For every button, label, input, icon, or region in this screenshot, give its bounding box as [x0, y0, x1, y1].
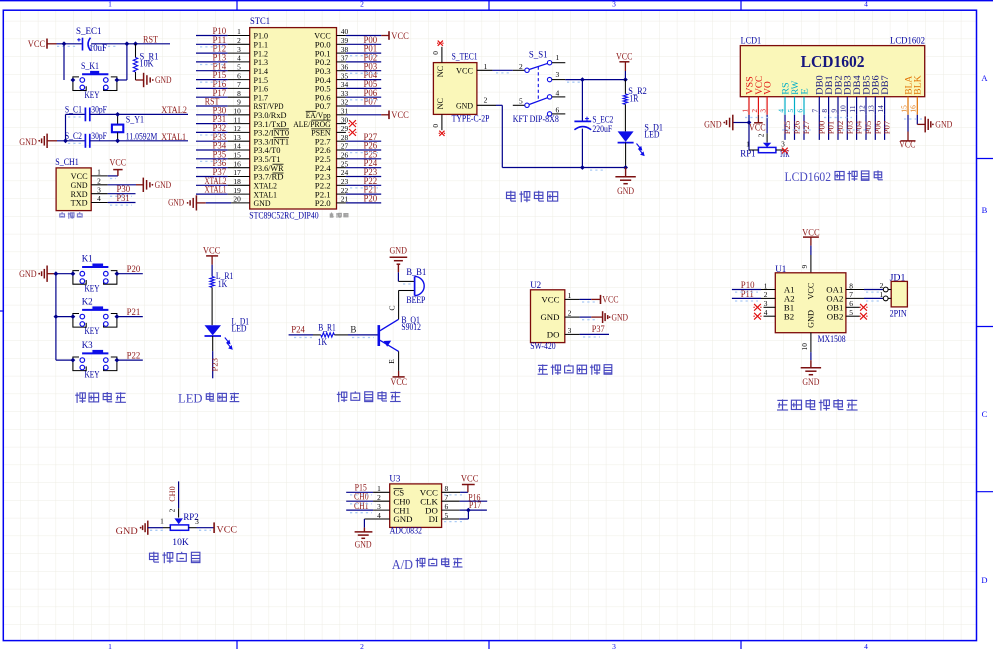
- driver U1 pin7 wire: [846, 297, 883, 299]
- svg-text:13: 13: [867, 105, 876, 113]
- svg-text:3: 3: [377, 502, 381, 511]
- svg-text:GND: GND: [617, 186, 634, 196]
- svg-text:LCD1602: LCD1602: [785, 169, 832, 184]
- svg-text:S_K1: S_K1: [81, 61, 99, 71]
- power port VCC (U3): [461, 475, 479, 493]
- svg-text:NC: NC: [436, 65, 445, 77]
- driver U1 body: [775, 264, 846, 344]
- lcd pin1 wire to gnd rail: [733, 115, 751, 150]
- wire key bus: [55, 274, 57, 360]
- wire crystal gnd row: [57, 140, 86, 142]
- svg-text:P07: P07: [882, 120, 892, 134]
- compile marks lcd: [745, 118, 922, 131]
- node junction led bottom: [623, 165, 628, 170]
- svg-text:B_B1: B_B1: [406, 267, 426, 277]
- wire U1 pin9: [800, 246, 811, 273]
- svg-text:4: 4: [556, 88, 560, 97]
- svg-text:4: 4: [864, 642, 868, 649]
- svg-text:VCC: VCC: [807, 282, 816, 299]
- svg-text:1: 1: [568, 291, 572, 300]
- mcu STC1 body: [249, 16, 336, 220]
- wire switch to vcc column: [565, 79, 625, 81]
- compile marks U2: [582, 302, 600, 337]
- compile marks U1: [735, 292, 882, 301]
- compile marks reset area: [57, 46, 132, 205]
- buzzer B_B1: [399, 267, 427, 305]
- net label XTAL1: [161, 132, 186, 142]
- net label P37 (U2): [592, 324, 605, 334]
- svg-text:3: 3: [97, 185, 101, 194]
- svg-text:C: C: [387, 305, 396, 310]
- svg-text:DO: DO: [547, 330, 560, 340]
- svg-text:STC89C52RC_DIP40: STC89C52RC_DIP40: [249, 210, 319, 220]
- svg-text:S_CH1: S_CH1: [55, 157, 79, 167]
- svg-text:2: 2: [568, 309, 572, 318]
- connector S_TEC1 pin1 wire: [477, 62, 513, 71]
- push button S_K1: [73, 61, 117, 100]
- svg-text:BLK: BLK: [913, 75, 923, 95]
- net label CH0 (rotated): [167, 486, 177, 502]
- svg-text:19: 19: [233, 186, 241, 195]
- svg-text:6: 6: [795, 109, 804, 113]
- svg-text:1K: 1K: [318, 337, 328, 347]
- driver U1 pins OB1/OB2 stubs: [846, 307, 860, 316]
- svg-text:VCC: VCC: [217, 526, 238, 536]
- node junctions crystal: [115, 112, 120, 143]
- svg-text:13: 13: [233, 133, 241, 142]
- svg-text:7: 7: [237, 80, 241, 89]
- svg-text:KEY: KEY: [85, 90, 100, 100]
- svg-text:GND: GND: [155, 180, 172, 190]
- net label CH1 (U3): [354, 501, 369, 511]
- mcu right pin wires: [337, 36, 382, 203]
- power port VCC (RP2): [197, 522, 238, 535]
- label adc title: [392, 557, 463, 572]
- svg-text:5: 5: [786, 109, 795, 113]
- svg-text:8: 8: [849, 281, 853, 290]
- label key circuit title: [75, 392, 126, 403]
- net label P24: [291, 324, 305, 334]
- svg-text:VCC: VCC: [391, 110, 409, 120]
- svg-text:GND: GND: [155, 75, 172, 85]
- svg-text:4: 4: [97, 194, 101, 203]
- wire net P16 (U3): [442, 500, 488, 502]
- svg-text:34: 34: [341, 80, 349, 89]
- svg-text:2: 2: [360, 0, 364, 8]
- svg-text:RW: RW: [790, 80, 800, 94]
- svg-text:P17: P17: [469, 500, 482, 510]
- svg-text:GND: GND: [355, 540, 372, 550]
- svg-text:P11: P11: [741, 289, 754, 299]
- wire net P37 (U2): [580, 333, 609, 335]
- svg-text:D: D: [981, 575, 987, 585]
- svg-text:27: 27: [341, 142, 349, 151]
- svg-text:18: 18: [233, 177, 241, 186]
- node junction crystal left: [63, 138, 68, 143]
- svg-text:VO: VO: [763, 81, 773, 95]
- svg-text:32: 32: [341, 98, 349, 107]
- svg-text:VCC: VCC: [749, 122, 766, 132]
- svg-text:CH0: CH0: [167, 486, 177, 502]
- svg-text:2: 2: [360, 642, 364, 649]
- svg-text:4: 4: [764, 308, 768, 317]
- svg-text:3: 3: [237, 45, 241, 54]
- svg-text:220uF: 220uF: [592, 124, 612, 134]
- svg-text:15: 15: [899, 105, 908, 113]
- net label B: [350, 324, 356, 334]
- svg-text:25: 25: [341, 159, 349, 168]
- net label P31 (download): [117, 193, 130, 203]
- connector S_TEC1 top pin: [431, 41, 444, 63]
- svg-text:LCD1602: LCD1602: [890, 35, 925, 45]
- mcu left pin wires: [196, 36, 250, 195]
- no-connect mark RP1 pin3: [781, 148, 788, 154]
- ground GND (buzzer): [389, 246, 407, 282]
- lcd pin15 wire to vcc: [899, 115, 915, 150]
- power port VCC (download): [108, 157, 126, 176]
- svg-text:2PIN: 2PIN: [890, 308, 908, 318]
- svg-text:GND: GND: [612, 312, 629, 322]
- wire net P10 (U1): [732, 289, 775, 291]
- svg-text:P24: P24: [291, 324, 305, 334]
- svg-text:B: B: [350, 324, 356, 334]
- svg-text:S_C2: S_C2: [65, 131, 82, 141]
- connector S_CH1 body: [55, 157, 91, 211]
- led L_D1: [205, 317, 250, 349]
- connector S_TEC1 pin2 wire: [477, 96, 502, 168]
- wire key right branch: [117, 44, 127, 80]
- connector JD1: [880, 273, 908, 319]
- power port VCC (U1): [802, 227, 820, 245]
- svg-text:5: 5: [849, 308, 853, 317]
- svg-text:20: 20: [233, 195, 241, 204]
- svg-text:VCC: VCC: [203, 246, 221, 256]
- net label P17 (U3): [469, 500, 482, 510]
- svg-text:VCC: VCC: [602, 295, 618, 305]
- net label XTAL2: [161, 105, 187, 115]
- svg-text:21: 21: [341, 195, 349, 204]
- svg-text:12: 12: [233, 124, 241, 133]
- svg-text:GND: GND: [254, 198, 271, 208]
- net label P30 (download): [117, 184, 131, 194]
- mcu right net labels: [364, 35, 378, 204]
- svg-text:S_EC1: S_EC1: [76, 26, 102, 36]
- wire net P30 (download): [108, 193, 136, 195]
- connector S_CH1 pins: [71, 168, 108, 208]
- svg-text:30pF: 30pF: [91, 131, 107, 141]
- adc U3 pin names/numbers: [377, 484, 448, 524]
- push button K3: [56, 340, 143, 380]
- svg-text:LCD1602: LCD1602: [801, 52, 865, 71]
- svg-text:GND: GND: [168, 198, 184, 208]
- svg-text:S_C1: S_C1: [65, 105, 82, 115]
- svg-text:P20: P20: [364, 194, 378, 204]
- svg-text:4: 4: [237, 54, 241, 63]
- svg-text:29: 29: [341, 124, 349, 133]
- svg-text:GND: GND: [19, 137, 37, 147]
- wire led to net P23: [212, 336, 214, 378]
- module U2 body: [530, 280, 565, 351]
- svg-text:1: 1: [108, 0, 112, 8]
- svg-text:VCC: VCC: [391, 31, 409, 41]
- svg-text:DB7: DB7: [880, 75, 890, 95]
- svg-text:KEY: KEY: [85, 283, 100, 293]
- svg-text:S_TEC1: S_TEC1: [452, 52, 478, 62]
- svg-text:KFT DIP-8X8: KFT DIP-8X8: [513, 114, 559, 124]
- svg-text:VCC: VCC: [391, 377, 408, 387]
- svg-text:17: 17: [233, 168, 241, 177]
- svg-text:STC1: STC1: [250, 16, 270, 26]
- wire U3 pin5 loop: [442, 510, 469, 519]
- net label P10 (U1): [741, 280, 755, 290]
- svg-text:9: 9: [829, 109, 838, 113]
- svg-text:2: 2: [519, 62, 523, 71]
- svg-text:ADC0832: ADC0832: [390, 526, 422, 536]
- svg-text:C: C: [982, 409, 988, 419]
- module U2 pins: [540, 291, 579, 340]
- svg-text:1: 1: [880, 290, 884, 299]
- adc U3 body: [389, 474, 441, 536]
- svg-text:37: 37: [341, 54, 349, 63]
- resistor S_R1: [133, 44, 158, 80]
- svg-text:35: 35: [341, 71, 349, 80]
- svg-text:2: 2: [484, 96, 488, 105]
- wire net P11 (U1): [732, 297, 775, 299]
- ground GND (crystal): [19, 134, 57, 148]
- svg-text:GND: GND: [704, 120, 722, 130]
- svg-text:8: 8: [445, 484, 449, 493]
- ground GND (U3): [355, 532, 373, 550]
- svg-text:VCC: VCC: [461, 475, 479, 485]
- svg-text:B: B: [982, 205, 988, 215]
- svg-text:6: 6: [445, 502, 449, 511]
- power port VCC (mcu pin31): [381, 110, 409, 120]
- svg-text:38: 38: [341, 45, 349, 54]
- compile marks buzzer: [294, 284, 412, 338]
- svg-text:E: E: [799, 88, 809, 95]
- svg-text:2: 2: [377, 493, 381, 502]
- svg-text:2: 2: [757, 133, 766, 137]
- svg-text:DI: DI: [429, 514, 438, 524]
- svg-text:GND: GND: [393, 514, 412, 524]
- svg-text:4: 4: [776, 109, 785, 113]
- svg-text:2: 2: [97, 176, 101, 185]
- label power circuit title: [507, 191, 558, 203]
- svg-text:23: 23: [341, 177, 349, 186]
- svg-text:2: 2: [168, 508, 177, 512]
- push button K1: [56, 254, 143, 294]
- svg-text:VCC: VCC: [110, 157, 127, 167]
- svg-text:VCC: VCC: [28, 39, 46, 49]
- svg-text:LCD1: LCD1: [741, 35, 762, 45]
- compile marks RP2: [150, 529, 211, 531]
- label buzzer circuit title: [337, 391, 401, 402]
- driver U1 inner rotated labels: [807, 282, 816, 328]
- svg-text:10uF: 10uF: [89, 43, 107, 53]
- wire CH0 to RP2: [168, 481, 179, 517]
- svg-text:10: 10: [233, 107, 241, 116]
- svg-text:MX1508: MX1508: [818, 334, 846, 344]
- potentiometer RP2: [160, 512, 199, 548]
- wire P24 to resistor: [289, 334, 313, 336]
- svg-text:4: 4: [377, 511, 381, 520]
- wire net P31 (download): [108, 202, 136, 204]
- svg-text:NC: NC: [436, 97, 445, 109]
- svg-text:39: 39: [341, 36, 349, 45]
- power port VCC (reset net): [28, 39, 57, 50]
- svg-text:OB2: OB2: [827, 311, 844, 321]
- svg-text:12: 12: [857, 105, 866, 113]
- svg-text:3: 3: [195, 517, 199, 526]
- ground GND (U2): [580, 311, 629, 323]
- node junction vcc column top: [623, 77, 628, 82]
- svg-text:2: 2: [237, 36, 241, 45]
- svg-text:6: 6: [237, 71, 241, 80]
- lcd LCD1 body: [740, 35, 925, 96]
- svg-text:CH1: CH1: [354, 501, 369, 511]
- lcd pin names, numbers and stubs: [740, 75, 922, 115]
- svg-text:33: 33: [341, 89, 349, 98]
- svg-text:40: 40: [341, 27, 349, 36]
- connector S_TEC1 inner labels: [436, 65, 473, 110]
- svg-text:4: 4: [864, 0, 868, 8]
- svg-text:9: 9: [237, 98, 241, 107]
- switch S_S1: [513, 50, 566, 125]
- svg-text:9: 9: [800, 265, 809, 269]
- connector S_TEC1 bottom pin: [431, 114, 445, 135]
- svg-text:3: 3: [612, 642, 616, 649]
- svg-text:1: 1: [740, 109, 749, 113]
- svg-text:K3: K3: [82, 340, 93, 350]
- svg-text:P27: P27: [801, 120, 811, 134]
- svg-text:3: 3: [556, 70, 560, 79]
- svg-text:1: 1: [484, 62, 488, 71]
- svg-text:1: 1: [746, 140, 750, 149]
- svg-text:K1: K1: [82, 254, 93, 264]
- no-connect marks U1 B1/B2: [753, 304, 761, 320]
- capacitor S_EC1: [76, 26, 107, 53]
- wire U1 pin10: [800, 333, 811, 368]
- svg-text:B2: B2: [784, 311, 794, 321]
- wire net CH1 (U3): [346, 509, 390, 511]
- svg-text:15: 15: [233, 151, 241, 160]
- svg-text:1: 1: [108, 642, 112, 649]
- svg-text:LED: LED: [644, 130, 659, 140]
- ground GND (reset): [136, 73, 172, 87]
- svg-text:U3: U3: [389, 474, 400, 484]
- svg-text:P26: P26: [792, 120, 802, 134]
- svg-text:1K: 1K: [218, 279, 228, 289]
- svg-text:8: 8: [820, 109, 829, 113]
- svg-text:1: 1: [764, 281, 768, 290]
- svg-text:VCC: VCC: [802, 227, 820, 237]
- svg-text:24: 24: [341, 168, 349, 177]
- svg-text:14: 14: [233, 142, 241, 151]
- lcd data wires and rotated net labels: [782, 115, 892, 140]
- push button K2: [56, 296, 143, 336]
- mcu pin names and numbers: [233, 27, 348, 208]
- svg-text:1: 1: [97, 168, 101, 177]
- svg-text:11: 11: [848, 105, 857, 112]
- ground GND (supply): [615, 168, 635, 196]
- resistor B_R1: [313, 323, 348, 348]
- led S_D1: [618, 123, 663, 168]
- node junction at key/RST wire: [125, 41, 130, 46]
- svg-text:S_S1: S_S1: [529, 50, 548, 60]
- wire net P17 (U3): [442, 509, 487, 511]
- capacitor S_C1: [65, 105, 107, 122]
- connector S_TEC1 body: [433, 52, 489, 124]
- svg-text:5: 5: [519, 97, 523, 106]
- svg-text:P07: P07: [364, 97, 378, 107]
- wire U3 pin8 to vcc: [442, 491, 468, 493]
- svg-text:1: 1: [377, 484, 381, 493]
- svg-text:30pF: 30pF: [91, 105, 107, 115]
- driver U1 pin8 wire: [846, 289, 883, 291]
- svg-text:0: 0: [431, 124, 440, 128]
- net label P11 (U1): [741, 289, 754, 299]
- power port VCC (mcu pin40): [381, 31, 409, 41]
- ground GND (lcd backlight): [925, 116, 953, 132]
- svg-text:1: 1: [160, 517, 164, 526]
- svg-text:A/D: A/D: [392, 557, 413, 572]
- mcu left net labels: [205, 26, 227, 195]
- power port VCC (lcd pin2): [749, 115, 766, 133]
- wire crystal left branch: [66, 114, 86, 140]
- net label P15 (U3): [355, 483, 368, 493]
- svg-text:P20: P20: [127, 264, 141, 274]
- svg-text:1: 1: [556, 53, 560, 62]
- label download port title: [60, 212, 82, 219]
- svg-text:22: 22: [341, 186, 349, 195]
- ground GND (lcd): [704, 115, 733, 131]
- wire key left branch: [63, 44, 65, 80]
- wire base: [348, 334, 378, 336]
- wire supply bottom rail: [502, 167, 625, 169]
- node junction cap top: [580, 77, 585, 82]
- svg-text:GND: GND: [802, 377, 819, 387]
- node junction cap bottom: [580, 165, 585, 170]
- svg-text:26: 26: [341, 151, 349, 160]
- capacitor S_EC2: [574, 80, 613, 168]
- label mcu chinese: [330, 213, 348, 218]
- svg-text:VCC: VCC: [899, 140, 915, 150]
- svg-text:1: 1: [237, 27, 241, 36]
- svg-text:10: 10: [800, 343, 809, 351]
- svg-text:3: 3: [781, 139, 785, 148]
- resistor S_R2: [623, 80, 647, 132]
- svg-text:1R: 1R: [629, 94, 638, 104]
- label dc motor title: [777, 399, 858, 411]
- potentiometer RP1: [740, 115, 790, 159]
- svg-text:P2.0: P2.0: [315, 198, 331, 208]
- svg-text:10K: 10K: [172, 538, 189, 548]
- svg-text:GND: GND: [19, 269, 37, 279]
- svg-text:KEY: KEY: [85, 370, 100, 380]
- svg-text:XTAL2: XTAL2: [161, 105, 187, 115]
- svg-text:GND: GND: [540, 312, 559, 322]
- node junctions key bus: [54, 271, 59, 319]
- resistor L_R1: [210, 265, 234, 326]
- ground GND (keys): [19, 266, 56, 282]
- svg-text:RS: RS: [780, 82, 790, 95]
- svg-text:S_Y1: S_Y1: [126, 114, 144, 124]
- net label P16 (U3): [468, 492, 481, 502]
- svg-text:K2: K2: [82, 296, 93, 306]
- svg-text:VCC: VCC: [616, 52, 633, 62]
- svg-text:2: 2: [880, 281, 884, 290]
- svg-text:6: 6: [849, 299, 853, 308]
